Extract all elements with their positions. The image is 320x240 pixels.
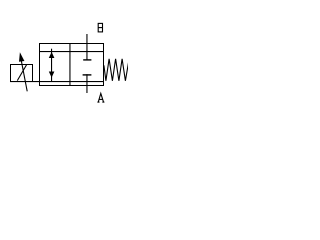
proportional arrow head [19, 52, 24, 62]
flow path arrow (left square) [49, 49, 55, 82]
port label A [97, 93, 104, 102]
return spring [104, 59, 129, 81]
valve envelope inner bottom line (extends left to solenoid) [10, 81, 104, 82]
solenoid U1 box [11, 65, 33, 82]
valve envelope inner top line [39, 51, 104, 52]
proportional adjustment arrow shaft [20, 56, 27, 91]
position divider [69, 44, 70, 87]
blocked port B (right square, top T) [83, 34, 91, 61]
blocked port A (right square, bottom T) [83, 74, 92, 93]
solenoid diagonal [17, 64, 27, 80]
valve body outer envelope [40, 44, 104, 86]
port label B [98, 23, 102, 32]
